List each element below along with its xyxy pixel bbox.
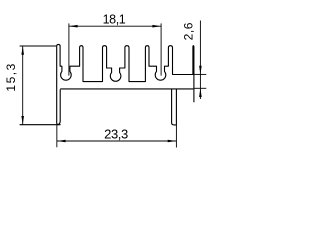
arrowheads	[21, 25, 201, 142]
wire dim 18,1 right extension line	[160, 23, 162, 75]
node arrow 2,6 bottom (outside, pointing up)	[199, 88, 202, 97]
svg-text:23,3: 23,3	[104, 127, 128, 142]
dimension lines	[23, 21, 207, 148]
wire top surface line + 15,3 top extension (colinear)	[20, 45, 57, 47]
wire dim 2,6 line	[199, 21, 201, 100]
svg-text:18,1: 18,1	[103, 12, 126, 26]
wire dim 2,6 upper extension line	[194, 73, 207, 75]
wire plate underside	[60, 88, 193, 90]
heatsink profile dimensioned drawing	[0, 0, 218, 160]
node left leg top tab	[57, 44, 60, 46]
node arrow 18,1 right	[152, 25, 161, 28]
svg-text:15,3: 15,3	[4, 62, 18, 91]
node arrow 2,6 top (outside, pointing down)	[199, 66, 202, 75]
wire foot bottom + 15,3 bottom extension (colinear)	[20, 124, 61, 126]
node arrow 23,3 left	[57, 140, 66, 143]
wire dim 23,3 left extension line	[56, 125, 58, 148]
node arrow 23,3 right	[168, 140, 177, 143]
wire dim 18,1 line	[69, 25, 161, 27]
wire dim 23,3 right extension line	[175, 125, 177, 148]
svg-text:2,6: 2,6	[181, 22, 195, 40]
node right leg	[172, 89, 177, 125]
node arrow 15,3 bottom	[21, 116, 24, 125]
wire dim 15,3 line	[22, 46, 24, 125]
main profile outline: leg right edge, port1, fins A-E, ports, right wall	[60, 46, 194, 103]
wire dim 2,6 lower extension line	[194, 87, 207, 89]
node arrow 15,3 top	[21, 46, 24, 55]
wire dim 23,3 line	[57, 140, 176, 142]
wire left leg outer edge down to foot	[57, 46, 59, 124]
wire dim 18,1 left extension line	[68, 23, 70, 75]
node arrow 18,1 left	[69, 25, 78, 28]
wire foot inner edge with fillet	[58, 89, 60, 124]
